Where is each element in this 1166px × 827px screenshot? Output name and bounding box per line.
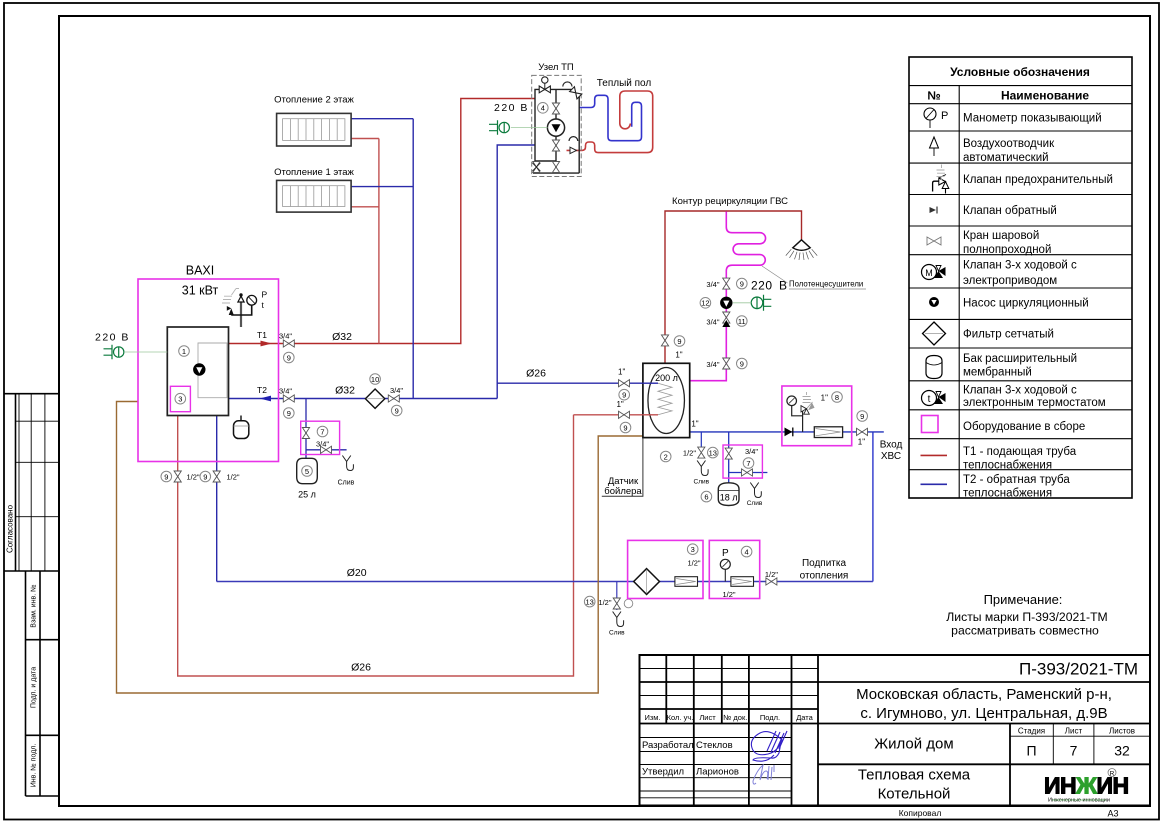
svg-text:Т2 - обратная труба: Т2 - обратная труба <box>963 474 1070 486</box>
svg-text:№: № <box>927 89 940 103</box>
svg-text:9: 9 <box>740 279 744 288</box>
node 7 18l <box>743 458 754 469</box>
wire DHW recirculation red <box>665 211 802 363</box>
towel leader line <box>762 266 788 283</box>
svg-text:Примечание:: Примечание: <box>984 592 1063 607</box>
node 9 DHW riser <box>674 336 685 347</box>
drain hook 18l <box>750 483 761 498</box>
svg-text:11: 11 <box>738 317 746 326</box>
wire T1 supply from boiler to floor-unit riser <box>229 99 536 344</box>
svg-text:1": 1" <box>616 400 623 409</box>
radiator floor1 <box>277 180 352 212</box>
towel plug connection <box>733 302 751 304</box>
safety group manometer <box>787 396 797 406</box>
boiler instrument branch <box>231 306 252 316</box>
svg-text:1": 1" <box>691 420 698 429</box>
svg-text:Т1 - подающая труба: Т1 - подающая труба <box>963 446 1077 458</box>
wire radiator supply riser <box>378 139 380 344</box>
wire towel dryer magenta circuit <box>690 212 766 381</box>
svg-text:Изм.: Изм. <box>644 713 660 722</box>
manometer box4 <box>720 559 730 581</box>
valve cold drain <box>698 447 705 458</box>
svg-text:Утвердил: Утвердил <box>642 767 684 778</box>
svg-text:Лист: Лист <box>699 713 716 722</box>
svg-text:Полотенцесушители: Полотенцесушители <box>789 280 863 289</box>
svg-text:Взам. инв. №: Взам. инв. № <box>31 584 38 627</box>
svg-text:Разработал: Разработал <box>642 740 694 751</box>
reducer box4 <box>731 577 754 587</box>
svg-text:8: 8 <box>835 393 839 402</box>
wire T2 branch to small expansion tank <box>306 399 347 459</box>
svg-text:Т1: Т1 <box>257 330 267 340</box>
wire cold water branch to tank 18l <box>729 432 768 483</box>
svg-text:1/2": 1/2" <box>227 473 240 482</box>
floor unit mixing valve <box>539 77 550 93</box>
svg-text:BAXI: BAXI <box>186 264 215 278</box>
svg-text:М: М <box>925 268 933 278</box>
svg-text:Кран шаровой: Кран шаровой <box>963 230 1039 242</box>
svg-text:1/2": 1/2" <box>765 570 778 579</box>
svg-text:Насос циркуляционный: Насос циркуляционный <box>963 297 1089 309</box>
boiler sensor label box <box>602 438 643 497</box>
svg-text:Воздухоотводчик: Воздухоотводчик <box>963 138 1055 150</box>
boiler assembly magenta box <box>138 279 279 462</box>
svg-text:3/4": 3/4" <box>706 280 719 289</box>
svg-text:1: 1 <box>182 347 186 356</box>
svg-text:Котельной: Котельной <box>878 786 951 803</box>
svg-text:3: 3 <box>691 545 695 554</box>
svg-text:Контур рециркуляции ГВС: Контур рециркуляции ГВС <box>672 196 788 207</box>
makeup filter box 3 <box>628 540 703 598</box>
node 10 <box>370 374 381 385</box>
svg-text:Ларионов: Ларионов <box>696 767 739 778</box>
svg-text:Р: Р <box>941 110 948 122</box>
svg-text:Ø32: Ø32 <box>335 385 355 397</box>
svg-text:220 В: 220 В <box>494 102 529 114</box>
node 9 after strainer <box>391 405 402 416</box>
shower symbol <box>786 240 817 260</box>
wire floor loop blue <box>579 95 641 140</box>
valve drain box7 <box>321 446 332 453</box>
svg-text:Вход: Вход <box>880 440 903 451</box>
svg-text:Клапан предохранительный: Клапан предохранительный <box>963 174 1113 186</box>
floor unit valve above pump <box>552 103 559 114</box>
valve cold inlet <box>857 428 868 435</box>
floor unit right riser <box>578 97 580 150</box>
svg-text:мембранный: мембранный <box>963 367 1032 379</box>
svg-text:1/2": 1/2" <box>598 598 611 607</box>
boiler plug connection <box>125 351 167 353</box>
svg-text:13: 13 <box>709 448 717 457</box>
svg-text:Узел ТП: Узел ТП <box>538 62 574 73</box>
svg-text:1": 1" <box>675 351 682 360</box>
valve coil return <box>619 411 630 418</box>
node 9 cold inlet <box>857 411 868 422</box>
floor unit diagonal check valve <box>570 87 582 99</box>
svg-text:1/2": 1/2" <box>687 559 700 568</box>
svg-text:электроприводом: электроприводом <box>963 275 1057 287</box>
wire coil inlet inside tank <box>642 382 658 384</box>
svg-text:220: 220 <box>751 279 773 293</box>
svg-text:Подпитка: Подпитка <box>802 558 847 569</box>
svg-text:Стеклов: Стеклов <box>696 740 733 751</box>
wire cold water riser <box>872 432 874 582</box>
wire boiler drain red loop to tank coil <box>178 415 658 676</box>
water meter box3 <box>675 577 698 587</box>
wire coil outlet inside tank <box>642 414 658 416</box>
svg-text:Слив: Слив <box>609 630 625 637</box>
svg-text:3/4": 3/4" <box>706 360 719 369</box>
svg-text:Слив: Слив <box>694 479 710 486</box>
valve makeup drain <box>613 598 620 609</box>
svg-text:7: 7 <box>746 459 750 468</box>
radiator floor2 <box>277 113 352 146</box>
wire floor loop red <box>567 91 653 153</box>
svg-text:полнопроходной: полнопроходной <box>963 244 1051 256</box>
svg-text:1": 1" <box>858 438 865 447</box>
node 6 <box>701 491 712 502</box>
node 9 T1 <box>284 352 295 363</box>
node 9 towel bottom <box>737 358 748 369</box>
safety group relief valve spring <box>803 392 812 403</box>
tank 200l coil <box>658 383 672 415</box>
valve after strainer <box>388 395 399 402</box>
tank 18l box <box>723 445 762 478</box>
svg-text:рассматривать совместно: рассматривать совместно <box>951 624 1099 638</box>
svg-text:бойлера: бойлера <box>604 486 642 497</box>
node 7 <box>317 426 328 437</box>
svg-text:Лист: Лист <box>1065 726 1083 735</box>
legend table frame <box>909 57 1132 498</box>
svg-text:3/4": 3/4" <box>279 332 292 341</box>
wire radiator 2 return <box>351 118 413 120</box>
svg-text:10: 10 <box>371 375 379 384</box>
svg-text:31 кВт: 31 кВт <box>182 284 219 298</box>
node 3 <box>175 393 186 404</box>
svg-text:В: В <box>779 279 787 293</box>
strainer 10 <box>365 389 384 408</box>
boiler safety valve spring <box>222 289 239 304</box>
left margin approval table <box>4 394 59 571</box>
svg-text:1": 1" <box>618 368 625 377</box>
legend 3-way valve thermostat symbol <box>922 391 946 406</box>
legend air vent symbol <box>930 137 939 156</box>
strainer diagonal <box>368 398 384 400</box>
legend T2 line sample <box>921 483 948 485</box>
svg-text:9: 9 <box>287 409 291 418</box>
floor unit dashed box <box>532 75 582 176</box>
valve towel bottom <box>723 358 730 369</box>
svg-text:220 В: 220 В <box>95 332 130 344</box>
signature Steklov <box>751 731 787 761</box>
svg-text:Клапан обратный: Клапан обратный <box>963 205 1057 217</box>
legend pump symbol <box>929 297 939 307</box>
logo INZHIN <box>1044 769 1129 804</box>
drain hook cold <box>697 461 708 476</box>
legend manometer symbol <box>924 108 948 128</box>
svg-text:теплоснабжения: теплоснабжения <box>963 488 1052 500</box>
valve boiler red drop <box>174 471 181 482</box>
valve 18l vertical <box>725 448 732 459</box>
valve in box 7 <box>302 428 309 439</box>
svg-text:Листы марки П-393/2021-ТМ: Листы марки П-393/2021-ТМ <box>946 610 1107 624</box>
signature Larionov <box>753 765 774 784</box>
legend check valve symbol <box>930 207 938 214</box>
svg-text:Клапан 3-х ходовой с: Клапан 3-х ходовой с <box>963 260 1077 272</box>
svg-text:Тепловая схема: Тепловая схема <box>858 767 971 784</box>
svg-text:7: 7 <box>320 427 324 436</box>
svg-text:9: 9 <box>623 423 627 432</box>
wire cold water main <box>690 431 884 433</box>
svg-text:25 л: 25 л <box>298 490 316 500</box>
svg-text:Инв. № подл.: Инв. № подл. <box>31 744 38 788</box>
legend 3-way valve with drive symbol <box>922 265 946 280</box>
legend safety valve symbol <box>933 165 949 194</box>
node 9 blue drop <box>200 471 211 482</box>
safety group box 8 <box>782 386 852 446</box>
expansion tank 25l <box>297 458 318 483</box>
boiler expansion vessel <box>234 416 249 439</box>
left margin inventory table <box>26 571 60 796</box>
svg-text:12: 12 <box>701 299 709 308</box>
node 9 T2 <box>284 408 295 419</box>
wire floor-unit return riser <box>497 145 535 399</box>
node 13 makeup <box>584 596 595 607</box>
towel label underline <box>789 288 866 290</box>
wire radiator 1 return <box>351 186 413 188</box>
floor unit left manifold <box>535 89 572 161</box>
svg-text:9: 9 <box>622 391 626 400</box>
legend T1 line sample <box>921 454 948 456</box>
boiler air vent <box>238 293 244 302</box>
node 3 makeup <box>687 544 698 555</box>
svg-text:Отопление 1 этаж: Отопление 1 этаж <box>274 167 354 178</box>
title block thick lines <box>640 655 1151 806</box>
towel pump 12 <box>721 297 732 308</box>
svg-text:1/2": 1/2" <box>683 449 696 458</box>
svg-text:Наименование: Наименование <box>1001 89 1089 103</box>
svg-text:9: 9 <box>164 472 168 481</box>
wire cold water drain branch <box>700 432 702 448</box>
drain hook makeup <box>613 612 624 627</box>
svg-text:ХВС: ХВС <box>881 451 901 462</box>
makeup strainer <box>634 569 660 595</box>
floor unit drain valve right <box>552 162 559 173</box>
boiler body <box>167 327 228 416</box>
node 4 floor unit <box>538 103 549 114</box>
svg-text:3: 3 <box>178 395 182 404</box>
legend assembled equipment symbol <box>922 416 939 433</box>
wire radiator 2 supply <box>351 138 379 140</box>
svg-text:4: 4 <box>745 547 749 556</box>
wire boiler sensor cable <box>117 402 643 694</box>
svg-text:Т2: Т2 <box>257 385 267 395</box>
svg-text:ИНЖИН: ИНЖИН <box>1044 773 1129 799</box>
drain hook boiler <box>342 456 353 471</box>
valve towel top <box>723 278 730 289</box>
boiler inner panel <box>198 343 227 398</box>
svg-text:13: 13 <box>586 597 594 606</box>
svg-text:Ø26: Ø26 <box>351 662 371 674</box>
legend ball valve symbol <box>927 237 941 245</box>
svg-text:9: 9 <box>740 359 744 368</box>
makeup pressure box 4 <box>709 540 759 598</box>
svg-text:Р: Р <box>262 290 268 300</box>
tank 200l body <box>643 363 690 437</box>
svg-text:9: 9 <box>860 412 864 421</box>
svg-text:П: П <box>1026 743 1036 759</box>
svg-text:П-393/2021-ТМ: П-393/2021-ТМ <box>1019 660 1138 679</box>
svg-text:Р: Р <box>722 548 729 559</box>
svg-text:2: 2 <box>664 452 668 461</box>
boiler power plug <box>104 345 124 359</box>
node 9 D26 <box>619 389 630 400</box>
wire D26 to tank coil inlet <box>497 382 658 384</box>
boiler manometer <box>247 295 257 305</box>
valve makeup inlet <box>766 578 777 585</box>
svg-text:Слив: Слив <box>338 480 355 487</box>
tank 18l <box>718 483 739 506</box>
valve T1 boiler <box>283 340 294 347</box>
check valve 11 <box>722 312 730 327</box>
svg-text:Листов: Листов <box>1109 726 1135 735</box>
floor unit pump <box>547 119 564 136</box>
svg-text:32: 32 <box>1114 743 1130 759</box>
legend strainer symbol <box>923 322 946 345</box>
node 13 cold drain <box>708 447 719 458</box>
node 9 towel top <box>737 278 748 289</box>
safety group piping <box>792 406 803 432</box>
svg-text:Ø32: Ø32 <box>332 331 352 343</box>
boiler top safety group stem <box>240 302 242 327</box>
node 12 <box>700 298 711 309</box>
valve T2 boiler <box>283 395 294 402</box>
floor unit pump branch <box>533 89 579 173</box>
svg-text:автоматический: автоматический <box>963 152 1049 164</box>
svg-text:3/4": 3/4" <box>706 318 719 327</box>
svg-text:теплоснабжения: теплоснабжения <box>963 460 1052 472</box>
node 2 <box>660 451 671 462</box>
node 9 coil <box>620 422 631 433</box>
wire makeup drain branch <box>616 582 618 611</box>
svg-text:3/4": 3/4" <box>279 387 292 396</box>
svg-text:1": 1" <box>821 394 828 403</box>
floor unit plug <box>489 120 509 134</box>
valve boiler blue drop <box>213 471 220 482</box>
svg-text:5: 5 <box>305 467 309 476</box>
svg-text:Бак расширительный: Бак расширительный <box>963 353 1077 365</box>
tank 200l capsule <box>648 368 685 434</box>
wire makeup line D20 <box>217 581 873 583</box>
makeup drain plug circle <box>624 599 633 608</box>
svg-text:№ док.: № док. <box>723 713 747 722</box>
svg-text:Отопление 2 этаж: Отопление 2 этаж <box>274 95 354 106</box>
separator filter <box>814 427 842 438</box>
check valve cold <box>785 428 793 437</box>
svg-text:Фильтр сетчатый: Фильтр сетчатый <box>963 329 1054 341</box>
svg-text:7: 7 <box>1070 743 1078 759</box>
title block thin lines <box>640 669 1151 798</box>
svg-text:Кол. уч.: Кол. уч. <box>667 713 694 722</box>
legend expansion tank symbol <box>926 356 942 379</box>
valve D26 tank inlet <box>619 380 630 387</box>
svg-text:электронным термостатом: электронным термостатом <box>963 397 1106 409</box>
svg-text:Ø26: Ø26 <box>526 368 546 380</box>
svg-text:9: 9 <box>203 472 207 481</box>
svg-text:Дата: Дата <box>796 713 813 722</box>
node 8 <box>832 392 843 403</box>
floor unit bottom arrow <box>570 147 577 153</box>
floor unit air dome <box>563 82 572 87</box>
svg-text:Жилой дом: Жилой дом <box>874 736 953 753</box>
boiler safety valve <box>227 306 234 315</box>
legend table grid <box>909 86 1132 498</box>
title block outer frame <box>640 655 1151 806</box>
svg-text:Ø20: Ø20 <box>347 567 367 579</box>
svg-text:Согласовано: Согласовано <box>6 504 15 553</box>
svg-text:отопления: отопления <box>800 571 849 582</box>
svg-text:Теплый пол: Теплый пол <box>597 78 652 89</box>
wire radiator return riser <box>412 119 414 399</box>
svg-text:1/2": 1/2" <box>722 590 735 599</box>
svg-text:Московская область, Раменский: Московская область, Раменский р-н, <box>856 686 1112 703</box>
floor unit valve below pump <box>552 140 559 151</box>
svg-text:Стадия: Стадия <box>1018 726 1045 735</box>
small expansion box 7 <box>301 421 340 454</box>
svg-text:Оборудование в сборе: Оборудование в сборе <box>963 421 1085 433</box>
valve 18l horizontal <box>742 469 753 476</box>
node 4 makeup <box>741 546 752 557</box>
svg-text:t: t <box>928 394 931 405</box>
node 5 <box>302 466 313 477</box>
svg-text:Условные обозначения: Условные обозначения <box>950 65 1090 79</box>
svg-text:3/4": 3/4" <box>390 386 403 395</box>
wire radiator 1 supply <box>351 206 379 208</box>
svg-text:9: 9 <box>395 406 399 415</box>
svg-text:R: R <box>1110 771 1115 778</box>
svg-text:9: 9 <box>287 353 291 362</box>
wire T2 return into boiler <box>229 398 498 400</box>
svg-text:Инженерные инновации: Инженерные инновации <box>1048 798 1110 804</box>
svg-text:3/4": 3/4" <box>745 447 758 456</box>
boiler pump <box>194 364 205 375</box>
valve DHW riser <box>661 335 668 346</box>
svg-text:Копировал: Копировал <box>899 808 942 818</box>
svg-text:Подл.: Подл. <box>760 713 780 722</box>
wire boiler blue drop <box>216 416 218 582</box>
svg-text:9: 9 <box>677 337 681 346</box>
safety group relief valve <box>801 406 809 415</box>
T1 flow arrow <box>261 341 273 347</box>
T2 flow arrow <box>260 396 272 402</box>
floor unit bottom dome <box>569 137 578 141</box>
svg-text:200 л: 200 л <box>655 373 678 383</box>
svg-text:с. Игумново, ул. Центральная,: с. Игумново, ул. Центральная, д.9В <box>860 705 1107 722</box>
node 11 <box>737 316 748 327</box>
svg-text:Слив: Слив <box>747 500 763 507</box>
boiler electrode box 3 <box>170 386 190 411</box>
floor unit drain valve left <box>532 162 540 173</box>
svg-text:А3: А3 <box>1107 809 1118 819</box>
towel pump plug <box>751 295 771 311</box>
svg-text:18 л: 18 л <box>720 493 738 503</box>
svg-text:Манометр показывающий: Манометр показывающий <box>963 113 1102 125</box>
svg-text:Подп. и дата: Подп. и дата <box>31 667 38 708</box>
node 9 red drop <box>161 471 172 482</box>
svg-text:6: 6 <box>704 492 708 501</box>
floor unit plug connection <box>511 127 548 129</box>
svg-text:4: 4 <box>541 104 545 113</box>
